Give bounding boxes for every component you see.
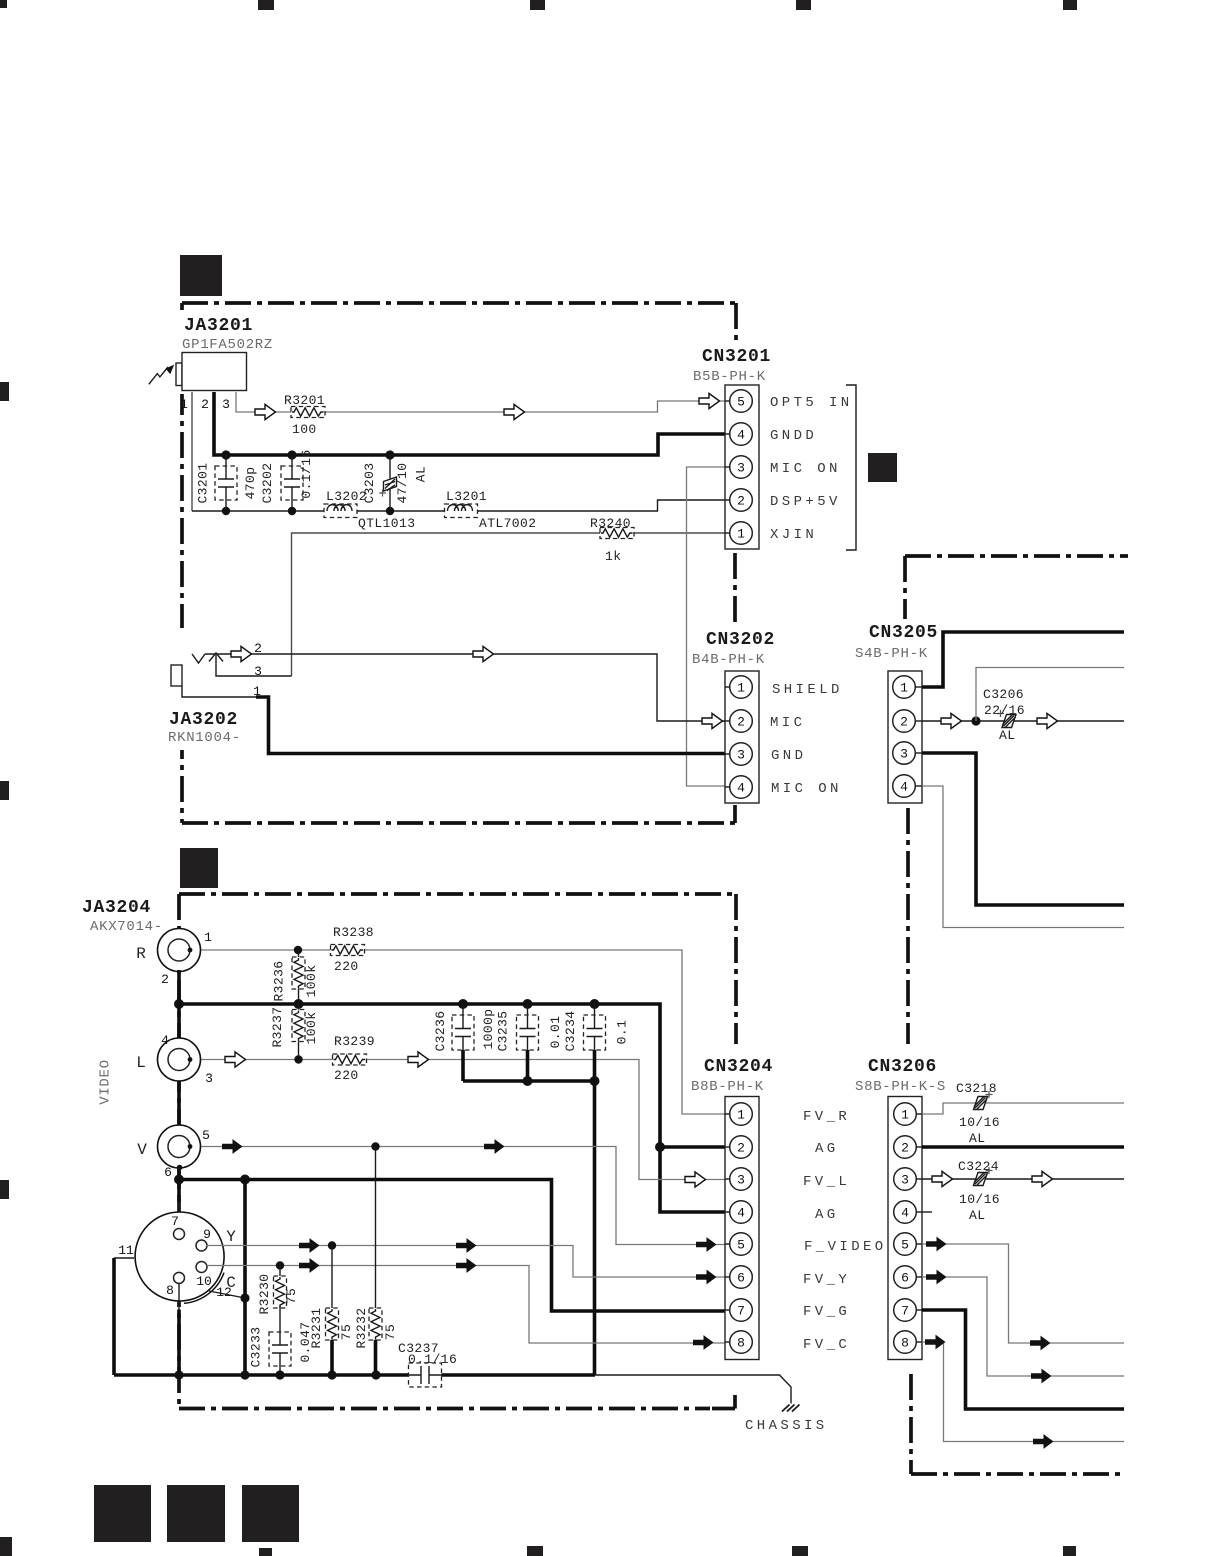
svg-text:FV_C: FV_C	[803, 1337, 850, 1353]
arrow on L wire 1	[225, 1052, 246, 1067]
svg-text:1: 1	[737, 681, 745, 696]
svg-text:3: 3	[901, 1173, 909, 1188]
svg-text:1: 1	[180, 397, 188, 412]
svg-text:3: 3	[737, 461, 745, 476]
arrow on V wire 2	[484, 1139, 505, 1154]
capacitor C3234	[548, 1004, 630, 1052]
arrow CN3206 pin5 b	[1030, 1336, 1051, 1351]
wire V video: jack V to CN3204 pin5 (gray)	[190, 1147, 725, 1245]
svg-text:10/16: 10/16	[959, 1192, 1000, 1207]
video ground bus (thick)	[179, 1180, 725, 1312]
junction dot Y line	[328, 1241, 336, 1249]
svg-text:R3238: R3238	[333, 925, 374, 940]
svg-text:S8B-PH-K-S: S8B-PH-K-S	[855, 1079, 946, 1095]
svg-text:C3234: C3234	[563, 1010, 578, 1051]
arrow on pin2 wire 2	[1037, 713, 1058, 728]
svg-text:GNDD: GNDD	[770, 428, 817, 444]
block marker B (audio-video block)	[180, 848, 218, 888]
connector CN3205 labels	[850, 619, 940, 662]
connector CN3201	[725, 385, 759, 549]
svg-text:6: 6	[164, 1165, 172, 1180]
svg-text:V: V	[137, 1141, 147, 1159]
junction dot R line	[294, 946, 302, 954]
capacitor C3201	[195, 455, 257, 511]
arrow on C wire 1	[299, 1258, 320, 1273]
svg-text:AL: AL	[999, 728, 1015, 743]
svg-text:75: 75	[339, 1324, 354, 1340]
svg-text:9: 9	[203, 1227, 211, 1242]
index square 1	[94, 1485, 151, 1542]
svg-text:1: 1	[901, 1108, 909, 1123]
capacitor C3235	[481, 1004, 539, 1052]
svg-text:470p: 470p	[243, 467, 258, 500]
connector CN3202	[725, 671, 759, 803]
svg-text:B5B-PH-K: B5B-PH-K	[693, 369, 766, 385]
registration mark left 2	[0, 781, 9, 800]
resistor R3231 (Y line termination)	[309, 1246, 354, 1376]
arrow on L wire 3 (to pin3)	[685, 1172, 706, 1187]
inductor L3201	[445, 489, 537, 531]
resistor R3236 (R to AG bus)	[271, 950, 319, 1004]
mic jack JA3202 label	[165, 705, 257, 746]
svg-text:4: 4	[737, 1206, 745, 1221]
wire OPT5: JA3201 pin3 to CN3201 pin5 (gray)	[236, 392, 725, 412]
arrow on MIC wire 3	[702, 713, 723, 728]
svg-text:3: 3	[254, 664, 262, 679]
svg-text:1: 1	[737, 527, 745, 542]
border of optical/mic block (dash-dot)	[182, 303, 737, 823]
wire GND: JA3202 pin1 to CN3202 pin3 (thick)	[182, 686, 725, 754]
svg-text:4: 4	[737, 428, 745, 443]
junction dot L line	[294, 1055, 302, 1063]
junction dots on AG bus	[174, 999, 665, 1152]
wire S-video pin11 to chassis loop	[114, 1258, 134, 1375]
CHASSIS label	[745, 1418, 828, 1434]
R jack pin labels	[161, 930, 212, 987]
chassis ground symbol	[782, 1405, 800, 1412]
resistor R3232 (V line termination)	[354, 1147, 398, 1376]
arrow on pin3 wire 1	[932, 1171, 953, 1186]
svg-text:JA3201: JA3201	[184, 316, 253, 336]
svg-text:S4B-PH-K: S4B-PH-K	[855, 646, 928, 662]
CN3204 net labels	[803, 1109, 887, 1353]
svg-text:220: 220	[334, 959, 359, 974]
svg-text:C3236: C3236	[433, 1010, 448, 1051]
capacitor C3206 (electrolytic)	[983, 687, 1025, 743]
svg-text:R3239: R3239	[334, 1034, 375, 1049]
arrow on Y wire 3 (to pin6)	[696, 1270, 717, 1285]
svg-text:RKN1004-: RKN1004-	[168, 730, 241, 746]
connector CN3206	[888, 1097, 922, 1360]
registration mark left 3	[0, 1180, 9, 1199]
arrow on OPT5 wire 3	[699, 393, 720, 408]
svg-text:75: 75	[383, 1324, 398, 1340]
svg-text:4: 4	[161, 1033, 169, 1048]
svg-text:CN3202: CN3202	[706, 630, 775, 650]
svg-text:C3206: C3206	[983, 687, 1024, 702]
svg-text:R3236: R3236	[271, 960, 286, 1001]
svg-text:2: 2	[901, 1141, 909, 1156]
registration mark left 1	[0, 382, 9, 401]
chassis ground bus (thick)	[114, 1373, 595, 1377]
arrow CN3206 pin5 a	[926, 1237, 947, 1252]
junction dot V line	[371, 1142, 379, 1150]
svg-text:L3202: L3202	[326, 489, 367, 504]
bracket right of CN3201	[846, 385, 856, 550]
svg-text:0.01: 0.01	[548, 1016, 563, 1049]
svg-text:C3235: C3235	[495, 1010, 510, 1051]
svg-text:C3218: C3218	[956, 1081, 997, 1096]
arrow CN3206 pin8 a	[925, 1335, 946, 1350]
svg-text:2: 2	[737, 1141, 745, 1156]
block marker A (top-left block)	[180, 255, 222, 296]
svg-text:7: 7	[901, 1304, 909, 1319]
svg-text:220: 220	[334, 1068, 359, 1083]
svg-text:AG: AG	[815, 1207, 839, 1223]
registration mark bottom 5	[1063, 1546, 1076, 1556]
svg-text:4: 4	[737, 781, 745, 796]
svg-text:JA3202: JA3202	[169, 710, 238, 730]
svg-text:DSP+5V: DSP+5V	[770, 494, 841, 510]
wire S-video pin8 down (thick)	[178, 1284, 180, 1376]
arrow on MIC wire 1	[231, 646, 252, 661]
wire C: S-video pin10 to CN3204 pin8 (gray)	[207, 1266, 726, 1344]
arrow on Y wire 2	[456, 1238, 477, 1253]
svg-text:R3237: R3237	[270, 1006, 285, 1047]
svg-text:CN3206: CN3206	[868, 1057, 937, 1077]
svg-text:2: 2	[737, 715, 745, 730]
svg-text:3: 3	[737, 1173, 745, 1188]
svg-text:L3201: L3201	[446, 489, 487, 504]
svg-text:7: 7	[171, 1214, 179, 1229]
svg-text:FV_R: FV_R	[803, 1109, 850, 1125]
JA3202 pin labels	[253, 641, 262, 699]
resistor R3238	[331, 925, 375, 974]
CN3201 net labels	[770, 395, 853, 543]
svg-text:4: 4	[900, 780, 908, 795]
L jack pin labels	[161, 1033, 213, 1086]
registration mark bottom 4	[792, 1546, 808, 1556]
wire JA3202 pin3 stub	[216, 655, 292, 676]
wire MIC ON: CN3201 pin3 to CN3202 pin4 (gray)	[687, 467, 726, 786]
wire CN3206 pin6 (gray)	[922, 1277, 1124, 1376]
svg-text:VIDEO: VIDEO	[98, 1059, 114, 1105]
svg-text:MIC ON: MIC ON	[770, 461, 841, 477]
svg-text:R3232: R3232	[354, 1307, 369, 1348]
arrow on C wire 2	[456, 1258, 477, 1273]
svg-text:CN3201: CN3201	[702, 347, 771, 367]
svg-text:ATL7002: ATL7002	[479, 516, 536, 531]
branch AG to CN3204 pin2 (thick)	[660, 1145, 725, 1149]
svg-text:22/16: 22/16	[984, 703, 1025, 718]
svg-text:CN3204: CN3204	[704, 1057, 773, 1077]
arrow on MIC wire 2	[473, 646, 494, 661]
svg-text:0.1/16: 0.1/16	[299, 449, 314, 498]
capacitor C3203 (electrolytic)	[362, 455, 429, 511]
svg-text:8: 8	[901, 1336, 909, 1351]
svg-text:0.1: 0.1	[614, 1020, 629, 1045]
svg-text:Y: Y	[226, 1228, 236, 1246]
inductor L3202	[324, 489, 415, 531]
svg-text:FV_G: FV_G	[803, 1304, 850, 1320]
capacitor C3233	[248, 1306, 313, 1375]
arrow CN3206 pin6 a	[926, 1270, 947, 1285]
Y/C labels	[226, 1228, 236, 1292]
svg-text:FV_Y: FV_Y	[803, 1272, 850, 1288]
svg-text:MIC: MIC	[770, 715, 805, 731]
VIDEO label	[98, 1059, 114, 1105]
svg-text:2: 2	[201, 397, 209, 412]
RCA jack L	[136, 1038, 200, 1081]
junction dot C line	[276, 1261, 284, 1269]
svg-text:1k: 1k	[605, 549, 621, 564]
arrow on OPT5 wire 2	[504, 404, 525, 419]
optical jack JA3201 label	[182, 316, 273, 353]
svg-text:OPT5 IN: OPT5 IN	[770, 395, 853, 411]
arrow on Y wire 1	[299, 1238, 320, 1253]
wire S-video pin12 diagonal	[209, 1291, 245, 1298]
svg-text:C3202: C3202	[260, 462, 275, 503]
resistor R3201	[284, 393, 325, 437]
wire JA3201 pin1 drop (gray)	[191, 392, 193, 511]
border of right interconnect block (dash-dot)	[905, 556, 1128, 1474]
svg-text:MIC ON: MIC ON	[771, 781, 842, 797]
connector CN3206 labels	[852, 1044, 946, 1095]
optical jack JA3201 body	[176, 353, 247, 391]
svg-text:AL: AL	[969, 1131, 985, 1146]
svg-text:QTL1013: QTL1013	[358, 516, 415, 531]
registration mark top 2	[258, 0, 274, 10]
svg-text:6: 6	[737, 1271, 745, 1286]
svg-text:5: 5	[901, 1238, 909, 1253]
svg-text:JA3204: JA3204	[82, 898, 151, 918]
wire CN3206 pin7 (thick)	[922, 1310, 1124, 1409]
wire L ground (thick)	[177, 1004, 181, 1038]
mic jack JA3202 symbol	[171, 653, 223, 686]
svg-text:1: 1	[900, 681, 908, 696]
svg-text:3: 3	[222, 397, 230, 412]
svg-text:C3233: C3233	[248, 1326, 263, 1367]
wire CN3205 pin3 (thick)	[922, 753, 1124, 905]
capacitor C3218 (electrolytic)	[956, 1081, 1000, 1146]
svg-text:C3224: C3224	[958, 1159, 999, 1174]
resistor R3237 (AG bus to L)	[270, 1004, 319, 1060]
connector CN3202 labels	[688, 627, 776, 669]
arrow CN3206 pin8 b	[1033, 1434, 1054, 1449]
segment between L and V jacks	[177, 1081, 181, 1125]
capacitor C3224 (electrolytic)	[958, 1159, 1000, 1223]
registration mark top 3	[530, 0, 545, 10]
arrow on V wire 3 (to pin5)	[696, 1237, 717, 1252]
svg-text:1000p: 1000p	[481, 1008, 496, 1049]
svg-text:B4B-PH-K: B4B-PH-K	[692, 652, 765, 668]
arrow on C wire 3 (to pin8)	[693, 1335, 714, 1350]
svg-text:R3201: R3201	[284, 393, 325, 408]
wire CN3205 pin4 (gray)	[922, 786, 1124, 928]
junction dots on Vcc rail	[222, 507, 394, 515]
wire R ground (thick)	[177, 970, 181, 1004]
svg-text:B8B-PH-K: B8B-PH-K	[691, 1079, 764, 1095]
svg-text:3: 3	[900, 747, 908, 762]
svg-text:AG: AG	[815, 1141, 839, 1157]
RCA jack R	[136, 929, 200, 972]
wire R audio: jack R to CN3204 pin1 (gray)	[190, 950, 725, 1114]
svg-text:AL: AL	[969, 1208, 985, 1223]
mask	[168, 310, 260, 750]
optical input arrow	[149, 365, 174, 385]
CN3202 net labels	[770, 682, 843, 797]
wire CN3206 pin1 through C3218 (gray)	[922, 1103, 1124, 1114]
svg-text:10/16: 10/16	[959, 1115, 1000, 1130]
svg-text:C3201: C3201	[195, 462, 210, 503]
V jack pin labels	[164, 1128, 210, 1180]
svg-text:GND: GND	[771, 748, 806, 764]
junction dots ground bus	[174, 1370, 380, 1379]
svg-text:8: 8	[737, 1336, 745, 1351]
svg-text:R3231: R3231	[309, 1307, 324, 1348]
wire CN3206 pin3 through C3224	[922, 1178, 1124, 1180]
svg-text:AKX7014-: AKX7014-	[90, 919, 163, 935]
svg-text:11: 11	[118, 1243, 134, 1258]
arrow CN3206 pin6 b	[1031, 1369, 1052, 1384]
resistor R3240	[590, 516, 634, 564]
capacitor C3237	[398, 1341, 457, 1387]
svg-text:0.1/16: 0.1/16	[408, 1352, 457, 1367]
svg-text:2: 2	[900, 715, 908, 730]
capacitor C3202	[260, 449, 314, 511]
svg-text:R3230: R3230	[257, 1273, 272, 1314]
connector CN3204 labels	[688, 1044, 773, 1095]
svg-text:SHIELD: SHIELD	[772, 682, 843, 698]
svg-text:F_VIDEO: F_VIDEO	[804, 1239, 887, 1255]
svg-text:R: R	[136, 945, 146, 963]
wire V ground (thick)	[177, 1165, 183, 1180]
arrow on OPT5 wire 1	[255, 404, 276, 419]
svg-text:10: 10	[196, 1274, 212, 1289]
border of audio/video block (dash-dot)	[179, 894, 736, 1409]
index square 2	[167, 1485, 225, 1542]
wire S-video pin12 riser (thick)	[243, 1180, 247, 1376]
svg-text:3: 3	[205, 1071, 213, 1086]
svg-text:AL: AL	[413, 466, 428, 482]
svg-text:5: 5	[737, 1238, 745, 1253]
registration mark bottom-left	[0, 1537, 12, 1556]
wire CN3206 pin2 (thick)	[922, 1145, 1124, 1149]
audio ground bus AG (thick)	[179, 1004, 725, 1212]
svg-text:R3240: R3240	[590, 516, 631, 531]
svg-text:1: 1	[737, 1108, 745, 1123]
registration mark bottom 2	[259, 1548, 272, 1556]
svg-text:75: 75	[284, 1288, 299, 1304]
connector CN3204	[725, 1097, 759, 1360]
jack JA3204 label	[82, 898, 163, 935]
wire MIC: JA3202 pin2 to CN3202 pin2	[205, 654, 725, 721]
svg-text:8: 8	[166, 1283, 174, 1298]
wire to chassis	[595, 1375, 791, 1404]
wire CN3205 pin2 through C3206	[922, 720, 1124, 722]
svg-text:4: 4	[901, 1206, 909, 1221]
junction dots video bus	[174, 1175, 250, 1185]
connector CN3201 labels	[690, 344, 782, 385]
svg-text:1: 1	[204, 930, 212, 945]
wire Vcc rail through L3202/L3201 to CN3201 pin2	[192, 500, 725, 511]
svg-text:FV_L: FV_L	[803, 1174, 850, 1190]
wire CN3206 pin4 stub	[922, 1211, 932, 1213]
gray branch from C3206 node	[976, 668, 1124, 722]
svg-text:2: 2	[737, 494, 745, 509]
wire Y: S-video pin9 to CN3204 pin6 (gray)	[207, 1246, 726, 1278]
svg-text:6: 6	[901, 1271, 909, 1286]
svg-text:CN3205: CN3205	[869, 623, 938, 643]
arrow on L wire 2	[408, 1052, 429, 1067]
connector CN3205	[888, 671, 922, 803]
registration mark top 5	[1063, 0, 1077, 10]
junction dot at C3206 node	[971, 716, 980, 725]
svg-text:3: 3	[737, 748, 745, 763]
svg-text:C: C	[226, 1274, 236, 1292]
svg-text:GP1FA502RZ: GP1FA502RZ	[182, 337, 273, 353]
block marker C (right of CN3201)	[868, 453, 897, 482]
wire XJIN: JA3202 pin3 to CN3201 pin1	[292, 533, 726, 676]
resistor R3230 (C line termination)	[257, 1266, 299, 1315]
arrow on pin2 wire 1	[941, 713, 962, 728]
JA3201 pin labels	[180, 397, 230, 412]
svg-text:5: 5	[737, 395, 745, 410]
svg-text:XJIN: XJIN	[770, 527, 817, 543]
S-video shell stub	[177, 1180, 181, 1229]
wire CN3206 pin5 (gray)	[922, 1244, 1124, 1343]
index square 3	[242, 1485, 299, 1542]
svg-text:100k: 100k	[304, 1012, 319, 1045]
svg-text:L: L	[136, 1054, 146, 1072]
wire GNDD: JA3201 pin2 to CN3201 pin4 (thick)	[214, 392, 725, 455]
wire CN3205 pin1 (thick)	[922, 632, 1124, 687]
junction dots on GNDD bus	[221, 450, 394, 459]
wire L audio: jack L to CN3204 pin3 (gray)	[190, 1060, 725, 1180]
capacitor C3236	[433, 1004, 474, 1052]
junction dots cap bus	[523, 1076, 600, 1086]
cap return bus (thick)	[463, 1050, 595, 1375]
S-video connector JA3204	[135, 1212, 224, 1303]
registration mark top 4	[796, 0, 811, 10]
svg-text:7: 7	[737, 1304, 745, 1319]
resistor R3239	[333, 1034, 376, 1083]
wire CN3206 pin8 (gray)	[922, 1342, 1124, 1442]
svg-text:5: 5	[202, 1128, 210, 1143]
svg-text:100: 100	[292, 422, 317, 437]
registration mark bottom 3	[527, 1546, 543, 1556]
junction dot pin12	[240, 1293, 249, 1302]
svg-text:47/10: 47/10	[395, 462, 410, 503]
S-video pin labels	[118, 1214, 232, 1300]
svg-text:100k: 100k	[304, 965, 319, 998]
svg-text:2: 2	[161, 972, 169, 987]
RCA jack V	[137, 1125, 200, 1168]
registration mark top-left	[0, 0, 7, 8]
arrow on V wire 1	[222, 1139, 243, 1154]
arrow on pin3 wire 2	[1032, 1171, 1053, 1186]
svg-text:CHASSIS: CHASSIS	[745, 1418, 828, 1434]
